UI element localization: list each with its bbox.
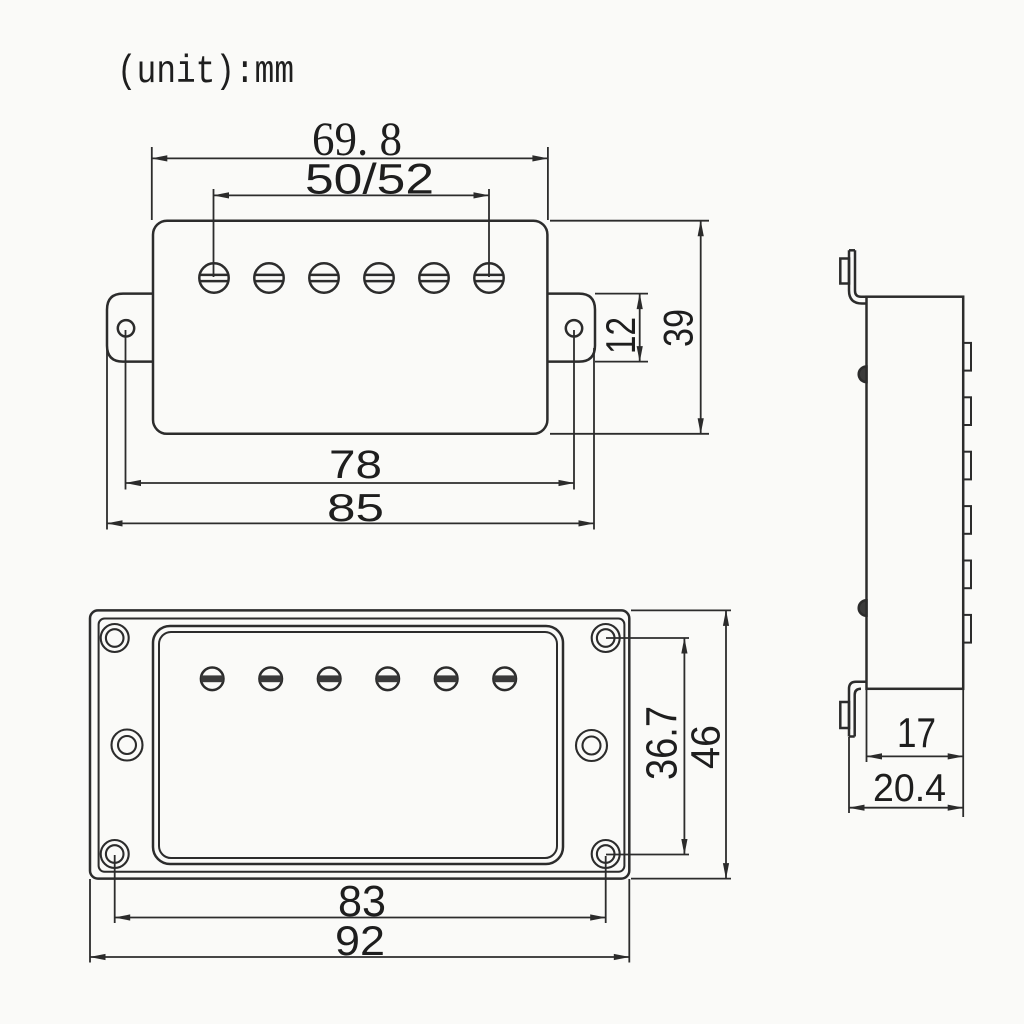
ring corner screw bottom-right — [592, 840, 620, 868]
svg-text:78: 78 — [329, 443, 382, 487]
pole screw 5 — [419, 263, 448, 292]
side view top leg outer edge — [849, 250, 867, 303]
right mounting ear — [540, 294, 595, 362]
pole screw 4 — [364, 263, 393, 292]
left mounting ear — [107, 294, 160, 362]
dimension 39 — [550, 221, 709, 434]
side view bottom leg end cap — [849, 735, 855, 738]
side view pole tab 6 — [963, 615, 971, 643]
side view pole tab 1 — [963, 343, 971, 371]
ring middle screw left — [112, 730, 143, 761]
svg-text:39: 39 — [655, 309, 702, 347]
svg-text:46: 46 — [683, 725, 729, 769]
pole screw 6 — [474, 263, 503, 292]
dimension 78 — [126, 330, 575, 490]
ring opening inner edge — [159, 632, 557, 858]
svg-text:92: 92 — [335, 917, 385, 964]
dimension 17 — [867, 690, 964, 817]
dimension 85 — [107, 348, 594, 530]
pole screw 1 — [199, 263, 228, 292]
side view top leg end cap — [849, 249, 855, 252]
left ear hole — [118, 320, 134, 336]
dimension 46 — [631, 610, 731, 878]
side view mounting screw bump upper — [859, 367, 867, 383]
pole screw 2 — [254, 263, 283, 292]
ring middle screw right — [576, 730, 607, 761]
side view body — [867, 297, 964, 689]
ring corner screw bottom-left — [101, 840, 129, 868]
ring corner screw top-right — [592, 624, 620, 652]
dimension 50/52 — [214, 156, 490, 278]
svg-text:85: 85 — [327, 487, 384, 530]
ring corner screw top-left — [101, 624, 129, 652]
dimension 83 — [115, 855, 606, 926]
ring pole screw 5 — [435, 668, 458, 691]
ring pole screw 6 — [493, 668, 516, 691]
svg-text:20.4: 20.4 — [873, 767, 946, 810]
pole screw 3 — [309, 263, 338, 292]
svg-text:50/52: 50/52 — [305, 156, 434, 204]
side view bottom leg inner edge — [855, 689, 861, 737]
ring pole screw 1 — [201, 668, 224, 691]
dimension 20.4 — [849, 737, 963, 813]
dimension 12 — [595, 294, 648, 362]
svg-text:17: 17 — [897, 709, 936, 756]
dimension 92 — [90, 879, 629, 964]
mounting ring inner step edge — [99, 619, 625, 872]
side view top leg inner edge — [855, 250, 867, 296]
svg-text:36.7: 36.7 — [638, 706, 687, 780]
side view bottom leg screw head — [840, 702, 849, 728]
ring pole screw 3 — [318, 668, 341, 691]
dimension 69.8 — [152, 113, 548, 220]
side view pole tab 4 — [963, 506, 971, 534]
side view pole tab 3 — [963, 452, 971, 480]
svg-text:(unit):mm: (unit):mm — [117, 50, 294, 94]
side view pole tab 2 — [963, 397, 971, 425]
side view bottom leg outer edge — [849, 682, 867, 737]
right ear hole — [566, 320, 582, 336]
side view top leg screw head — [840, 259, 849, 284]
svg-text:12: 12 — [597, 317, 644, 354]
ring pole screw 4 — [376, 668, 399, 691]
mounting ring outer edge — [90, 610, 629, 878]
dimension 36.7 — [606, 638, 689, 855]
ring pole screw 2 — [259, 668, 282, 691]
pickup body (front view) — [153, 221, 547, 434]
side view mounting screw bump lower — [859, 600, 867, 616]
ring opening outer edge — [153, 626, 563, 864]
side view pole tab 5 — [963, 561, 971, 589]
